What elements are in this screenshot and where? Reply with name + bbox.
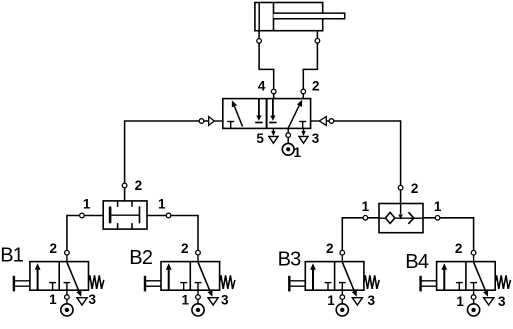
shuttle valve left input connector	[363, 216, 368, 221]
svg-text:2: 2	[326, 241, 334, 256]
valve port 2 connector	[301, 89, 306, 94]
svg-text:2: 2	[135, 178, 143, 193]
wire two-pressure valve output to left pilot 14	[125, 121, 209, 201]
svg-text:B3: B3	[278, 249, 302, 271]
left box blocked T	[230, 122, 232, 129]
AND valve right input connector	[166, 213, 171, 218]
valve port 1 connector and source	[287, 128, 289, 132]
svg-text:3: 3	[221, 293, 229, 308]
svg-text:1: 1	[434, 199, 442, 214]
cylinder left port connector	[257, 39, 262, 44]
svg-text:4: 4	[258, 79, 266, 94]
svg-text:1: 1	[158, 196, 166, 211]
svg-text:1: 1	[327, 293, 335, 308]
svg-text:1: 1	[83, 196, 91, 211]
left pilot	[214, 120, 223, 122]
cylinder piston	[273, 3, 275, 31]
left box diagonal flow arrow	[234, 105, 243, 127]
svg-text:1: 1	[456, 294, 464, 309]
cylinder (double-acting)	[255, 3, 323, 31]
left box blocked passage with arrow	[258, 99, 260, 117]
svg-text:1: 1	[49, 292, 57, 307]
wire B4 port 2 to shuttle valve right input 1	[423, 218, 474, 253]
shuttle valve through line	[379, 217, 423, 219]
right box blocked port 3 T	[302, 122, 304, 129]
5/2-way pilot valve U1 body	[223, 99, 311, 129]
svg-text:2: 2	[49, 241, 57, 256]
shuttle valve right input connector	[435, 216, 440, 221]
svg-text:2: 2	[181, 241, 189, 256]
two-pressure valve (AND) body	[103, 201, 147, 229]
svg-text:3: 3	[312, 131, 320, 146]
right box flow arrow 1 to 2	[288, 103, 300, 128]
valve B3 (3/2-way with plunger)	[289, 250, 379, 316]
AND valve output connector	[122, 183, 127, 188]
wire B3 port 2 to shuttle valve left input 1	[342, 218, 379, 253]
right pilot	[311, 120, 320, 122]
shuttle valve ball (diamond)	[385, 212, 395, 223]
exhaust port 3	[303, 128, 305, 132]
valve B4 (3/2-way with plunger)	[421, 250, 511, 316]
svg-text:3: 3	[498, 294, 506, 309]
wire shuttle valve output to right pilot 12	[326, 121, 400, 204]
svg-text:3: 3	[368, 293, 376, 308]
cylinder left cap inner line	[258, 3, 260, 31]
AND valve inner bottom stubs	[117, 223, 119, 229]
wire cylinder right port to valve port 2	[303, 31, 317, 99]
AND valve left input connector	[80, 213, 85, 218]
svg-text:B4: B4	[405, 251, 429, 273]
svg-text:3: 3	[89, 292, 97, 307]
valve B2 (3/2-way with plunger)	[145, 250, 235, 316]
AND valve shuttle bar	[110, 214, 139, 216]
svg-text:B1: B1	[0, 245, 24, 267]
AND valve right piston	[139, 206, 141, 223]
shuttle valve output connector	[398, 185, 403, 190]
exhaust port 5	[272, 128, 274, 132]
svg-text:1: 1	[362, 199, 370, 214]
svg-text:1: 1	[294, 145, 302, 160]
shuttle valve seat chevron	[408, 212, 413, 224]
AND valve inner top stubs	[117, 201, 119, 207]
wire B2 port 2 to two-pressure valve right input 1	[147, 216, 198, 253]
valve B1 (3/2-way with plunger)	[14, 250, 104, 316]
svg-text:2: 2	[455, 241, 463, 256]
shuttle valve (OR) body	[379, 204, 423, 233]
shuttle valve output passage	[400, 204, 402, 215]
AND valve left piston	[109, 207, 112, 224]
svg-text:2: 2	[312, 79, 320, 94]
wire cylinder left port to valve port 4	[259, 31, 274, 99]
valve port 4 connector	[271, 89, 276, 94]
right box blocked passage from port 4	[272, 99, 274, 117]
wire B1 port 2 to two-pressure valve left input 1	[67, 216, 103, 253]
svg-text:5: 5	[256, 131, 264, 146]
svg-text:2: 2	[411, 181, 419, 196]
cylinder right port connector	[315, 39, 320, 44]
svg-text:1: 1	[181, 293, 189, 308]
cylinder piston rod	[274, 13, 345, 19]
svg-text:B2: B2	[129, 247, 153, 269]
